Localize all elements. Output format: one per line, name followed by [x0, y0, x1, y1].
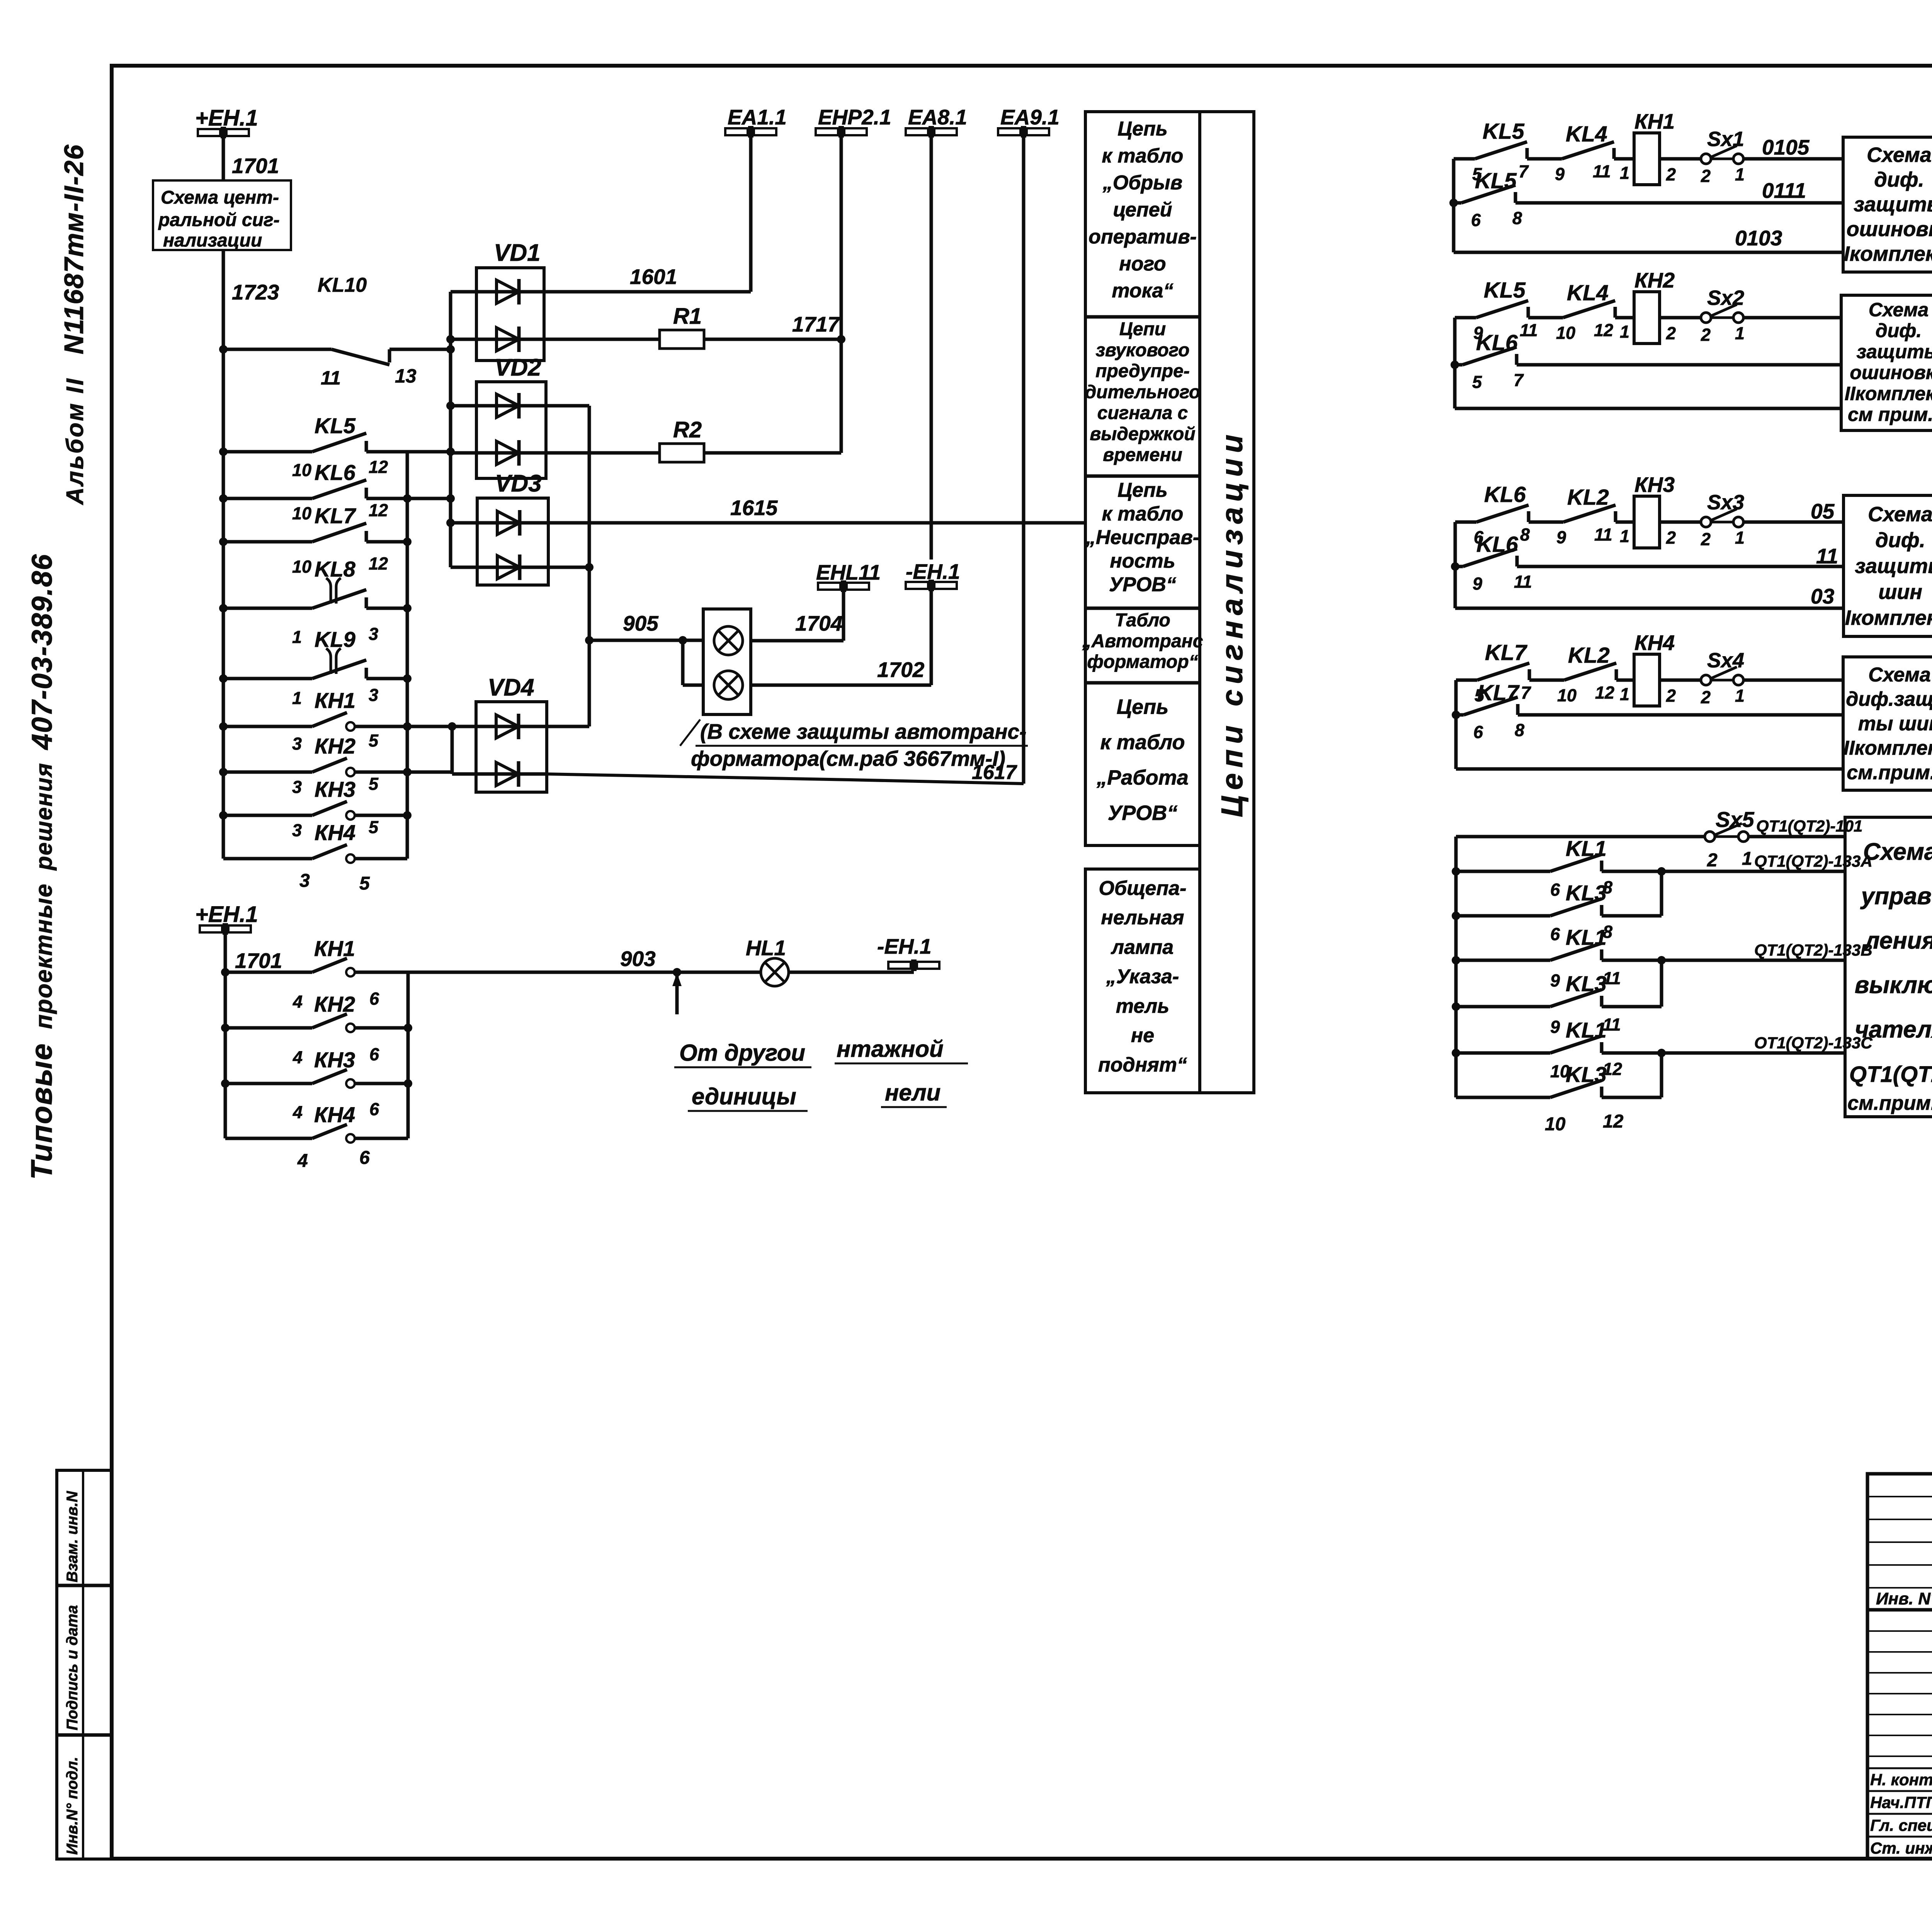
svg-text:4: 4: [297, 1151, 308, 1171]
svg-text:QT1(QT2)-133B: QT1(QT2)-133B: [1754, 941, 1872, 959]
svg-text:KL6: KL6: [1476, 330, 1518, 355]
svg-text:Цепь: Цепь: [1117, 696, 1168, 719]
svg-text:7: 7: [1514, 370, 1524, 390]
svg-text:KL7: KL7: [1477, 680, 1520, 705]
svg-text:ошиновки: ошиновки: [1847, 218, 1932, 241]
svg-text:2: 2: [1701, 687, 1711, 707]
svg-text:3: 3: [299, 871, 310, 891]
svg-text:Iкомплект: Iкомплект: [1844, 242, 1932, 265]
svg-text:2: 2: [1707, 850, 1718, 871]
svg-text:05: 05: [1811, 499, 1835, 523]
svg-text:не: не: [1131, 1024, 1154, 1047]
svg-text:Схема: Схема: [1869, 299, 1929, 320]
svg-text:KL5: KL5: [1484, 278, 1526, 303]
svg-text:тель: тель: [1116, 995, 1169, 1017]
svg-text:4: 4: [293, 992, 303, 1012]
svg-text:IIкомплект: IIкомплект: [1844, 737, 1932, 759]
svg-text:Схема: Схема: [1868, 503, 1932, 526]
svg-text:-ЕН.1: -ЕН.1: [877, 934, 932, 958]
svg-text:6: 6: [369, 989, 379, 1009]
svg-text:HL1: HL1: [746, 936, 786, 960]
svg-text:2: 2: [1701, 529, 1711, 549]
svg-text:VD1: VD1: [494, 240, 541, 266]
svg-text:ления: ления: [1864, 927, 1932, 954]
svg-text:3: 3: [369, 685, 378, 705]
svg-text:3: 3: [292, 820, 302, 840]
svg-text:2: 2: [1666, 323, 1676, 343]
svg-text:ошиновки: ошиновки: [1850, 362, 1932, 383]
svg-text:шин: шин: [1878, 580, 1922, 604]
svg-text:4: 4: [293, 1048, 303, 1067]
svg-text:7: 7: [1519, 162, 1529, 181]
svg-text:KL4: KL4: [1566, 122, 1607, 146]
svg-text:EHL11: EHL11: [816, 560, 881, 584]
svg-text:EA9.1: EA9.1: [1000, 105, 1060, 129]
svg-text:12: 12: [1603, 1059, 1622, 1079]
svg-text:цепей: цепей: [1113, 199, 1172, 221]
svg-text:форматор“: форматор“: [1087, 651, 1198, 672]
svg-text:УРОВ“: УРОВ“: [1109, 573, 1176, 596]
svg-text:10: 10: [292, 503, 311, 523]
svg-text:решения: решения: [31, 762, 57, 871]
svg-text:Ст. инж.: Ст. инж.: [1870, 1839, 1932, 1857]
svg-text:KL10: KL10: [318, 274, 367, 296]
svg-text:лампа: лампа: [1111, 936, 1173, 958]
svg-text:Sx4: Sx4: [1707, 649, 1744, 672]
svg-text:9: 9: [1550, 971, 1560, 990]
svg-text:управ-: управ-: [1860, 883, 1932, 910]
svg-text:Альбом II: Альбом II: [62, 377, 88, 505]
svg-text:KL1: KL1: [1566, 925, 1607, 949]
svg-text:KL2: KL2: [1567, 485, 1609, 510]
svg-text:9: 9: [1556, 527, 1566, 547]
svg-text:Взам. инв.N: Взам. инв.N: [64, 1491, 81, 1582]
svg-text:1: 1: [1742, 849, 1752, 869]
svg-text:6: 6: [369, 1099, 379, 1119]
svg-text:10: 10: [292, 557, 311, 577]
svg-text:Инв. N°: Инв. N°: [1876, 1589, 1932, 1608]
svg-text:чателя: чателя: [1855, 1016, 1932, 1043]
svg-text:защиты: защиты: [1857, 341, 1932, 362]
svg-text:1: 1: [1735, 528, 1745, 548]
svg-text:9: 9: [1555, 164, 1565, 184]
svg-text:Цепи: Цепи: [1119, 319, 1166, 340]
svg-text:Гл. спец.: Гл. спец.: [1870, 1816, 1932, 1834]
svg-text:7: 7: [1521, 683, 1531, 703]
svg-text:2: 2: [1701, 166, 1711, 186]
svg-text:1601: 1601: [630, 265, 677, 289]
svg-text:Нач.ПТП: Нач.ПТП: [1870, 1793, 1932, 1812]
svg-text:Общепа-: Общепа-: [1099, 877, 1187, 900]
svg-text:Iкомплект: Iкомплект: [1845, 606, 1932, 629]
svg-text:Цепи сигнализации: Цепи сигнализации: [1215, 429, 1249, 817]
svg-text:нельная: нельная: [1101, 907, 1184, 929]
svg-text:KL7: KL7: [315, 503, 357, 528]
svg-text:11: 11: [1816, 544, 1838, 568]
svg-text:поднят“: поднят“: [1098, 1054, 1187, 1076]
svg-text:УРОВ“: УРОВ“: [1108, 801, 1178, 825]
svg-text:форматора(см.раб 3667тм-I): форматора(см.раб 3667тм-I): [691, 747, 1005, 771]
svg-text:диф.: диф.: [1875, 529, 1925, 552]
svg-text:1701: 1701: [235, 949, 282, 973]
svg-text:Схема цент-: Схема цент-: [161, 187, 279, 208]
svg-text:ты шин: ты шин: [1858, 713, 1932, 735]
svg-text:KL1: KL1: [1566, 1018, 1607, 1042]
svg-text:Типовые: Типовые: [25, 1043, 58, 1180]
svg-text:2: 2: [1666, 686, 1676, 706]
svg-text:2: 2: [1666, 528, 1676, 548]
svg-text:8: 8: [1603, 922, 1612, 942]
svg-text:2: 2: [1666, 165, 1676, 184]
svg-text:1: 1: [1620, 163, 1629, 183]
svg-text:5: 5: [369, 817, 379, 837]
svg-text:KL5: KL5: [1483, 119, 1525, 144]
svg-text:„Автотранс: „Автотранс: [1082, 631, 1203, 651]
svg-text:ность: ность: [1110, 550, 1175, 572]
svg-text:диф.: диф.: [1876, 320, 1922, 342]
svg-text:VD2: VD2: [495, 354, 541, 381]
svg-text:Н. контр.: Н. контр.: [1870, 1771, 1932, 1789]
svg-text:КН2: КН2: [314, 992, 355, 1016]
svg-text:тока“: тока“: [1112, 280, 1173, 302]
svg-text:10: 10: [292, 460, 311, 480]
svg-text:Схема: Схема: [1868, 663, 1930, 686]
svg-text:11: 11: [1603, 968, 1621, 988]
svg-text:см.прим. 2: см.прим. 2: [1847, 1092, 1932, 1114]
svg-text:6: 6: [1550, 880, 1560, 900]
svg-text:QT1(QT2): QT1(QT2): [1849, 1062, 1932, 1087]
svg-text:КН2: КН2: [1634, 268, 1675, 292]
svg-text:диф.: диф.: [1874, 168, 1924, 191]
svg-text:8: 8: [1512, 208, 1522, 228]
svg-text:нтажной: нтажной: [837, 1036, 944, 1062]
svg-text:03: 03: [1811, 584, 1834, 608]
svg-text:1: 1: [1735, 165, 1745, 184]
svg-text:к табло: к табло: [1100, 731, 1185, 754]
svg-text:единицы: единицы: [692, 1084, 796, 1109]
svg-text:KL4: KL4: [1567, 281, 1609, 305]
svg-text:12: 12: [1595, 683, 1614, 703]
svg-text:903: 903: [620, 947, 656, 971]
svg-text:(В схеме защиты автотранс-: (В схеме защиты автотранс-: [700, 720, 1026, 743]
svg-text:1: 1: [1620, 684, 1629, 704]
svg-text:KL3: KL3: [1566, 971, 1607, 996]
svg-text:9: 9: [1473, 574, 1482, 594]
svg-text:6: 6: [1471, 210, 1481, 230]
svg-text:защиты: защиты: [1854, 193, 1932, 216]
svg-text:сигнала с: сигнала с: [1097, 403, 1188, 424]
svg-text:Sx2: Sx2: [1707, 286, 1744, 310]
svg-text:1615: 1615: [730, 496, 778, 520]
svg-text:0105: 0105: [1762, 135, 1810, 159]
svg-text:11: 11: [1593, 162, 1611, 181]
svg-text:8: 8: [1515, 720, 1524, 740]
svg-text:N11687тм-II-26: N11687тм-II-26: [59, 144, 89, 355]
svg-text:KL3: KL3: [1566, 1062, 1607, 1087]
svg-text:6: 6: [1473, 722, 1483, 742]
svg-text:КН3: КН3: [315, 777, 355, 801]
svg-text:КН4: КН4: [1634, 631, 1675, 655]
svg-text:КН1: КН1: [314, 936, 355, 961]
svg-text:EA1.1: EA1.1: [728, 105, 787, 129]
svg-text:KL6: KL6: [315, 460, 356, 485]
svg-text:От другои: От другои: [679, 1040, 805, 1066]
svg-text:к табло: к табло: [1102, 145, 1184, 167]
svg-text:EA8.1: EA8.1: [908, 105, 967, 129]
svg-text:407-03-389.86: 407-03-389.86: [26, 554, 58, 750]
svg-text:предупре-: предупре-: [1095, 361, 1190, 381]
svg-text:5: 5: [369, 774, 379, 794]
svg-text:см прим. 5: см прим. 5: [1848, 404, 1932, 425]
svg-text:оператив-: оператив-: [1088, 226, 1197, 248]
svg-text:КН4: КН4: [315, 820, 355, 845]
svg-text:см.прим. 5: см.прим. 5: [1847, 762, 1932, 784]
svg-text:Sx3: Sx3: [1707, 491, 1744, 514]
svg-text:10: 10: [1556, 323, 1575, 343]
svg-text:11: 11: [321, 367, 341, 389]
svg-text:IIкомплект: IIкомплект: [1845, 383, 1932, 404]
svg-text:KL6: KL6: [1484, 482, 1526, 507]
svg-text:KL6: KL6: [1476, 532, 1518, 557]
svg-text:12: 12: [369, 554, 388, 573]
svg-text:выдержкой: выдержкой: [1090, 424, 1195, 444]
svg-text:R2: R2: [673, 417, 702, 442]
svg-text:КН2: КН2: [315, 734, 355, 758]
svg-text:ральной сиг-: ральной сиг-: [158, 210, 280, 230]
svg-text:0111: 0111: [1762, 179, 1806, 202]
svg-text:времени: времени: [1103, 445, 1182, 465]
svg-text:1702: 1702: [877, 658, 925, 682]
svg-text:+ЕН.1: +ЕН.1: [195, 105, 258, 131]
svg-text:3: 3: [369, 624, 378, 644]
svg-text:0103: 0103: [1735, 226, 1782, 250]
svg-text:9: 9: [1550, 1017, 1560, 1037]
svg-text:Табло: Табло: [1115, 610, 1170, 631]
svg-text:QT1(QT2)-133A: QT1(QT2)-133A: [1754, 852, 1872, 871]
svg-text:5: 5: [1472, 372, 1482, 392]
svg-text:1: 1: [1620, 526, 1629, 546]
svg-text:8: 8: [1603, 878, 1612, 897]
svg-text:KL2: KL2: [1568, 643, 1610, 668]
svg-text:Схема: Схема: [1863, 839, 1932, 865]
svg-text:10: 10: [1545, 1114, 1566, 1135]
svg-text:1: 1: [292, 627, 302, 647]
svg-text:10: 10: [1557, 685, 1577, 705]
svg-text:КН3: КН3: [314, 1048, 355, 1072]
svg-text:„Обрыв: „Обрыв: [1102, 172, 1182, 194]
svg-text:KL3: KL3: [1566, 881, 1607, 905]
svg-text:5: 5: [369, 731, 379, 750]
svg-text:нели: нели: [885, 1080, 940, 1106]
svg-text:1723: 1723: [232, 280, 279, 304]
svg-text:12: 12: [369, 500, 388, 520]
svg-text:КН3: КН3: [1634, 473, 1675, 497]
svg-text:R1: R1: [673, 304, 702, 329]
svg-text:КН4: КН4: [314, 1102, 355, 1127]
svg-text:KL5: KL5: [315, 413, 356, 438]
svg-text:4: 4: [293, 1102, 303, 1122]
svg-text:Подпись и дата: Подпись и дата: [64, 1605, 81, 1730]
svg-text:Цепь: Цепь: [1117, 117, 1167, 140]
svg-text:защиты: защиты: [1855, 555, 1932, 578]
svg-text:2: 2: [1701, 325, 1711, 345]
svg-text:QT1(QT2)-101: QT1(QT2)-101: [1756, 817, 1862, 835]
svg-text:нализации: нализации: [163, 230, 262, 251]
svg-text:к табло: к табло: [1102, 503, 1184, 525]
svg-text:KL1: KL1: [1566, 836, 1607, 861]
svg-text:дительного: дительного: [1085, 382, 1201, 402]
svg-text:КН1: КН1: [1634, 109, 1675, 133]
svg-text:+ЕН.1: +ЕН.1: [195, 902, 258, 927]
svg-text:„Неисправ-: „Неисправ-: [1085, 526, 1199, 549]
svg-text:KL8: KL8: [315, 557, 356, 581]
svg-text:3: 3: [292, 777, 302, 797]
svg-text:13: 13: [395, 365, 417, 387]
svg-text:1: 1: [1620, 322, 1629, 342]
svg-text:6: 6: [359, 1148, 370, 1168]
svg-text:KL5: KL5: [1475, 168, 1517, 193]
svg-text:1717: 1717: [792, 312, 840, 336]
svg-text:12: 12: [369, 457, 388, 477]
svg-text:3: 3: [292, 734, 302, 754]
svg-text:1701: 1701: [232, 154, 279, 178]
svg-text:11: 11: [1603, 1015, 1621, 1034]
svg-text:5: 5: [359, 873, 370, 894]
svg-text:Схема: Схема: [1867, 143, 1932, 167]
svg-text:1: 1: [1735, 323, 1745, 343]
svg-text:1: 1: [1735, 686, 1745, 706]
svg-text:VD4: VD4: [488, 674, 534, 701]
svg-text:диф.защи-: диф.защи-: [1846, 688, 1932, 711]
svg-text:Инв.N° подл.: Инв.N° подл.: [64, 1757, 81, 1855]
svg-text:проектные: проектные: [31, 883, 57, 1029]
svg-text:Sx1: Sx1: [1707, 128, 1744, 151]
svg-text:8: 8: [1520, 525, 1530, 544]
svg-text:11: 11: [1514, 572, 1532, 592]
svg-text:Цепь: Цепь: [1117, 479, 1167, 502]
svg-text:11: 11: [1520, 320, 1538, 340]
svg-text:КН1: КН1: [315, 688, 355, 713]
svg-text:выклю-: выклю-: [1855, 972, 1932, 998]
svg-text:звукового: звукового: [1096, 340, 1190, 361]
svg-text:ного: ного: [1119, 253, 1166, 275]
svg-text:6: 6: [369, 1044, 379, 1064]
svg-text:6: 6: [1550, 924, 1560, 944]
svg-text:905: 905: [623, 611, 659, 635]
svg-text:KL7: KL7: [1485, 640, 1527, 665]
svg-text:„Работа: „Работа: [1096, 766, 1189, 789]
svg-text:VD3: VD3: [495, 470, 542, 497]
svg-text:12: 12: [1603, 1111, 1624, 1132]
svg-text:11: 11: [1594, 525, 1612, 544]
svg-text:„Указа-: „Указа-: [1106, 966, 1179, 988]
svg-text:1704: 1704: [795, 611, 842, 635]
svg-text:KL9: KL9: [315, 627, 355, 651]
svg-text:EHP2.1: EHP2.1: [818, 105, 891, 129]
svg-text:Sx5: Sx5: [1716, 807, 1754, 832]
svg-text:12: 12: [1594, 320, 1613, 340]
svg-text:1: 1: [292, 688, 302, 708]
